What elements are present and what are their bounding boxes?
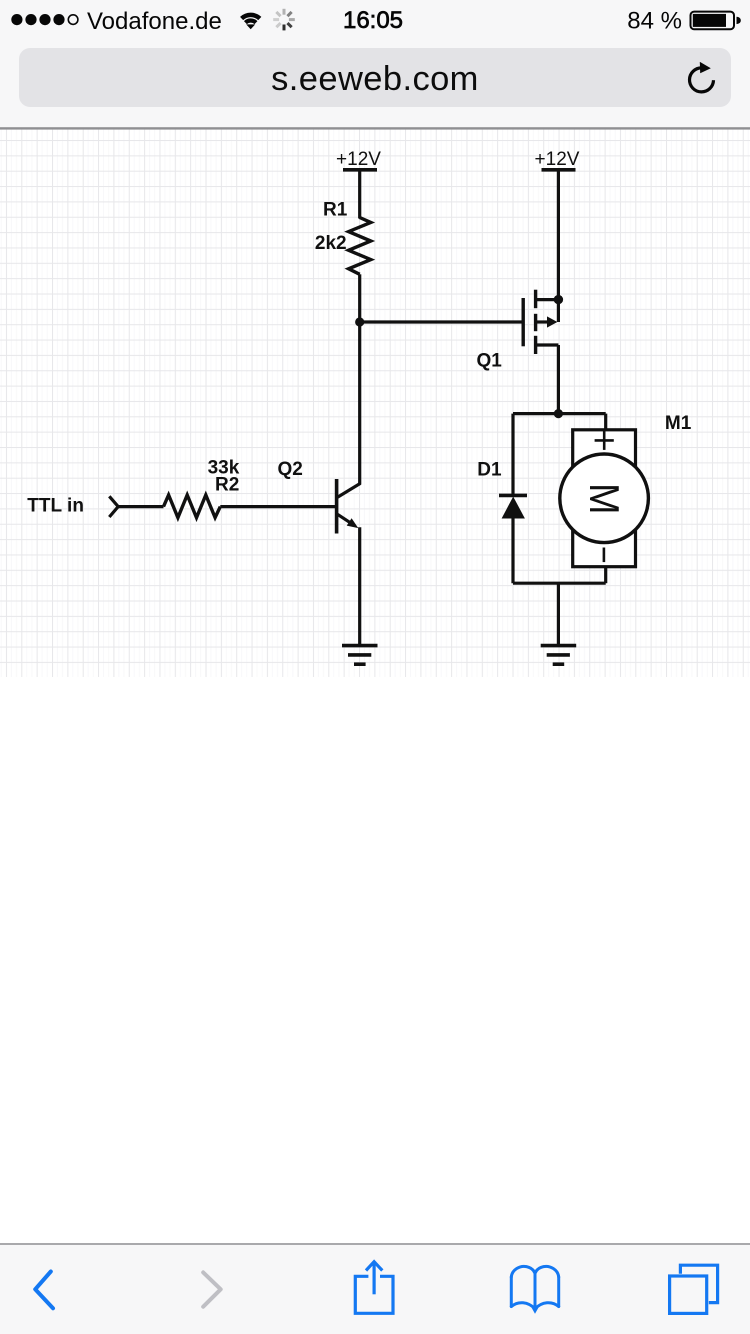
motor M1 body circle [560, 454, 649, 543]
wifi icon [242, 15, 260, 29]
status bar [0, 0, 750, 44]
bottom toolbar [0, 1243, 750, 1334]
node A junction [355, 317, 364, 326]
schematic content svg placeholder [0, 0, 750, 690]
Q1 body lead [536, 320, 549, 323]
Q2 emitter arrowhead [347, 518, 359, 528]
wire input to R2 [118, 505, 163, 508]
mosfet Q1 channel segment (source) [534, 336, 537, 354]
top chrome background [0, 0, 750, 128]
wire R1 to node A [358, 274, 361, 322]
Q1 body arrowhead [547, 316, 557, 327]
wire Q2 emitter to ground [358, 527, 361, 644]
Q1 drain junction dot [554, 295, 563, 304]
battery icon [691, 12, 741, 30]
ground (left) [342, 646, 378, 665]
wire bottom rail D1-M1 [513, 582, 606, 585]
svg-text:+12V: +12V [336, 149, 381, 170]
wire top rail D1-M1 [513, 412, 606, 415]
input port chevron [109, 496, 118, 517]
reload icon [686, 62, 718, 98]
motor M1 terminal frame [573, 430, 636, 567]
diode D1 triangle [502, 497, 525, 519]
diode D1 cathode bar [499, 494, 527, 498]
wire D1 branch upper [511, 414, 514, 496]
svg-text:Q2: Q2 [278, 459, 303, 480]
tabs icon [670, 1265, 718, 1313]
motor M1 plus terminal mark [595, 439, 614, 442]
wire D1 branch lower [511, 519, 514, 584]
svg-text:TTL in: TTL in [27, 496, 84, 517]
node B junction (motor top) [554, 409, 563, 418]
wire +12V to R1 [358, 170, 361, 219]
mosfet Q1 channel segment (drain) [534, 290, 537, 309]
wire R2 to Q2 base [220, 505, 335, 508]
svg-text:R2: R2 [215, 475, 239, 496]
svg-text:D1: D1 [477, 460, 502, 481]
svg-text:2k2: 2k2 [315, 233, 347, 254]
Q2 emitter lead [338, 514, 353, 524]
URL field [19, 48, 731, 107]
wire node A to Q1 gate [360, 320, 524, 323]
Q1 drain tap [536, 298, 559, 301]
wire motor branch lower [604, 566, 607, 583]
graph paper background [0, 130, 750, 677]
net +12V (right) power symbol [542, 168, 576, 172]
svg-text:+12V: +12V [535, 149, 580, 170]
ground (right) [541, 646, 577, 665]
wire motor branch upper [604, 414, 607, 431]
mosfet Q1 gate bar [522, 298, 525, 346]
wire +12V to Q1 drain and body [557, 170, 560, 322]
svg-text:Q1: Q1 [477, 350, 503, 371]
Q2 collector lead [338, 483, 361, 497]
wire node A to Q2 collector [358, 322, 361, 484]
mosfet Q1 channel segment (body) [534, 314, 537, 331]
loading spinner [273, 9, 295, 31]
svg-text:M1: M1 [665, 413, 692, 434]
wire bottom rail to ground [557, 583, 560, 644]
svg-text:M: M [581, 483, 627, 514]
Q1 source tap [536, 343, 559, 346]
bookmarks icon [511, 1266, 558, 1313]
signal dots [11, 14, 78, 25]
page top border [0, 127, 750, 129]
resistor R2 [164, 495, 221, 518]
share icon [355, 1262, 393, 1314]
forward button [203, 1272, 221, 1306]
resistor R1 [349, 218, 371, 275]
motor M1 minus terminal mark [603, 548, 606, 563]
wire Q1 source to motor node [557, 345, 560, 414]
transistor Q2 base bar [335, 479, 339, 534]
net +12V (left) power symbol [343, 168, 377, 172]
svg-text:R1: R1 [323, 199, 348, 220]
back button [35, 1272, 53, 1309]
